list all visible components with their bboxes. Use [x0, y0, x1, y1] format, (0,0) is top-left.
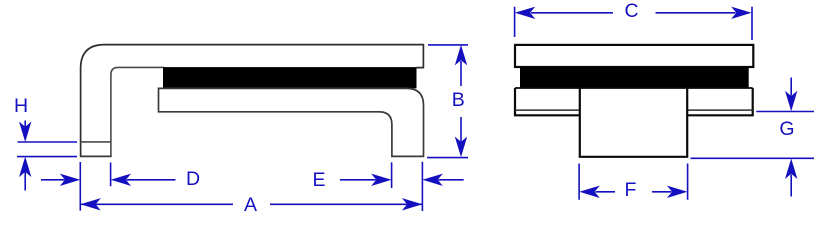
svg-text:C: C: [624, 0, 638, 22]
tab top edge: [515, 87, 753, 89]
svg-text:D: D: [186, 168, 200, 190]
dim C extension lines: [515, 7, 752, 40]
dim B extension lines: [427, 45, 468, 158]
lower tab / leg profile: [159, 88, 424, 156]
svg-text:H: H: [14, 95, 28, 117]
left wing mid line: [515, 109, 580, 111]
dim C line and arrows: [531, 12, 736, 14]
right wing outline: [687, 88, 753, 115]
dim D outside arrows: [41, 179, 65, 181]
dim B line and arrows: [460, 61, 462, 142]
dim F line and arrows: [596, 191, 672, 193]
dim G extension lines: [691, 112, 814, 159]
dim E outside arrows: [340, 179, 376, 181]
dim H arrows: [24, 121, 26, 129]
svg-text:B: B: [452, 89, 465, 111]
top plate (end view): [515, 45, 753, 67]
svg-text:A: A: [244, 194, 257, 216]
dim F extension lines: [579, 164, 688, 200]
left foot bottom line: [80, 155, 112, 157]
svg-text:G: G: [779, 118, 794, 140]
center pedestal: [580, 88, 687, 157]
svg-text:F: F: [625, 179, 637, 201]
solder layer (black bar, side view): [163, 67, 417, 88]
clip inner profile: [111, 67, 164, 156]
dim A line: [81, 203, 422, 205]
dim G arrows: [790, 78, 792, 96]
left foot mid line: [81, 141, 111, 143]
bottom extension lines, left view: [79, 162, 81, 211]
svg-text:E: E: [312, 169, 325, 191]
solder layer (black bar, end view): [520, 67, 749, 88]
dim H extension lines: [17, 142, 77, 157]
right wing mid line: [687, 109, 753, 111]
clip outer profile: [81, 45, 424, 157]
left wing outline: [515, 88, 580, 115]
